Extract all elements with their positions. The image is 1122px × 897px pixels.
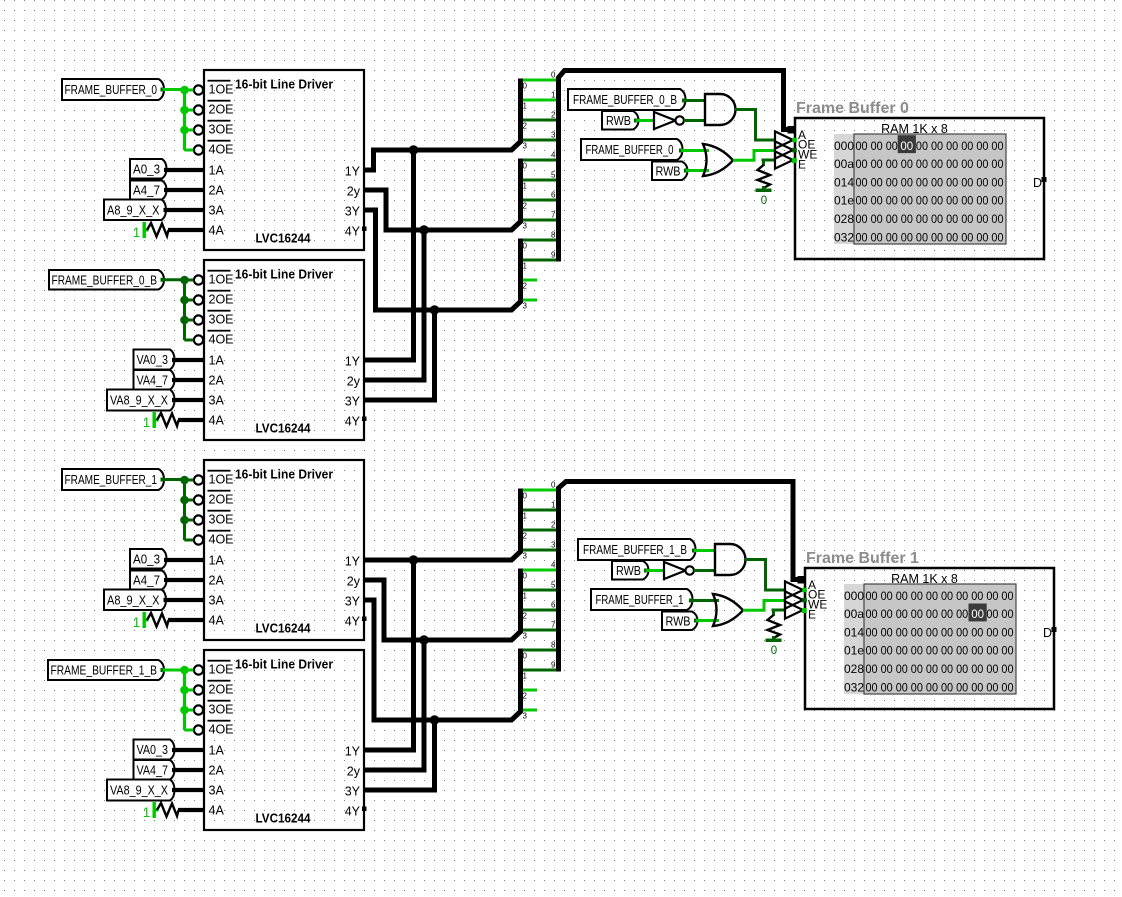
RAM RAM2 data cells xyxy=(864,584,1016,694)
svg-text:2: 2 xyxy=(523,692,528,701)
pin 1Y of U3 xyxy=(345,554,361,568)
svg-text:0: 0 xyxy=(523,652,528,661)
RAM RAM1 selected cell highlight xyxy=(898,135,916,153)
pin 2A of U4 xyxy=(209,764,225,778)
wire RWB to OR U10 input 2 xyxy=(694,619,719,623)
bus B2 tap label 0 xyxy=(551,481,556,490)
svg-text:2y: 2y xyxy=(347,374,361,388)
svg-text:1: 1 xyxy=(133,615,141,630)
splitter S3 bit label 2 xyxy=(523,282,528,291)
bus wire VA8_9_X_X to pin 3A xyxy=(172,788,204,792)
svg-text:00 00 00 00 00 00 00 00 00 00: 00 00 00 00 00 00 00 00 00 00 xyxy=(866,682,1014,694)
splitter S6 bit 0 wire to bus xyxy=(523,649,557,652)
svg-text:16-bit Line Driver: 16-bit Line Driver xyxy=(235,267,333,282)
net label FRAME_BUFFER_0 xyxy=(62,79,164,100)
splitter S2 bit label 1 xyxy=(523,182,528,191)
pin 2y of U4 xyxy=(347,764,361,778)
RAM RAM2 OE pin dot xyxy=(802,588,807,593)
svg-text:0: 0 xyxy=(551,71,556,80)
splitter S5 bit 0 wire to bus xyxy=(523,569,557,572)
wire trunk branch to 1OE xyxy=(185,279,194,282)
wire inverter U6 out to AND U5 input 2 xyxy=(684,119,705,122)
svg-text:16-bit Line Driver: 16-bit Line Driver xyxy=(235,657,333,672)
svg-text:3Y: 3Y xyxy=(345,594,361,608)
svg-text:1: 1 xyxy=(551,91,556,100)
splitter S6 bit 3 stub (unconnected) xyxy=(523,709,537,712)
ground symbol 0 for R5 xyxy=(756,189,772,208)
splitter S3 bit 0 wire to bus xyxy=(523,239,557,242)
pin 4OE of U1 (active-low bubble) xyxy=(194,140,234,157)
svg-text:FRAME_BUFFER_0_B: FRAME_BUFFER_0_B xyxy=(573,93,677,107)
splitter S4 bit label 2 xyxy=(523,532,528,541)
svg-text:1Y: 1Y xyxy=(345,164,361,178)
RAM RAM2 E pin dot xyxy=(802,608,807,613)
svg-text:00 00 00 00 00 00 00 00 00 00: 00 00 00 00 00 00 00 00 00 00 xyxy=(866,646,1014,658)
svg-text:5: 5 xyxy=(551,171,556,180)
svg-text:014: 014 xyxy=(834,175,854,189)
junction on OE trunk at 1OE xyxy=(180,666,189,675)
pin 1A of U1 xyxy=(209,164,225,178)
svg-text:000: 000 xyxy=(844,589,864,603)
pin 2A of U3 xyxy=(209,574,225,588)
junction node on 1Y bus xyxy=(409,145,419,155)
svg-text:2y: 2y xyxy=(347,184,361,198)
pin 3A of U1 xyxy=(209,204,225,218)
svg-text:0: 0 xyxy=(761,195,767,207)
svg-text:1A: 1A xyxy=(209,354,225,368)
wire trunk branch to 1OE xyxy=(185,89,194,92)
splitter S1 bit 0 wire to bus xyxy=(523,79,557,82)
RAM RAM1 WE pin dot xyxy=(792,148,797,153)
junction on OE trunk at 3OE xyxy=(180,516,189,525)
bus wire A8_9_X_X to pin 3A xyxy=(164,208,205,212)
junction node on lower 2y bus xyxy=(419,635,429,645)
svg-text:RWB: RWB xyxy=(606,114,631,128)
pin stub 4Y of U3 xyxy=(362,617,367,622)
splitter S1 bit label 1 xyxy=(523,102,528,111)
wire OE trunk vertical xyxy=(183,90,186,150)
bus wire VA8_9_X_X to pin 3A xyxy=(172,398,204,402)
RAM RAM1 E pin dot xyxy=(792,158,797,163)
svg-text:2y: 2y xyxy=(347,574,361,588)
svg-text:0: 0 xyxy=(523,242,528,251)
bus wire A8_9_X_X to pin 3A xyxy=(164,598,205,602)
bus wire U3 2y to splitter S5 xyxy=(364,569,521,641)
svg-text:2: 2 xyxy=(523,202,528,211)
splitter S5 bit 3 wire to bus xyxy=(523,629,557,632)
svg-text:01e: 01e xyxy=(844,644,864,658)
svg-text:01e: 01e xyxy=(834,194,854,208)
inverter U6 xyxy=(654,112,684,129)
wire trunk branch to 3OE xyxy=(185,709,194,712)
splitter S4 bit 1 wire to bus xyxy=(523,509,557,512)
inverter U9 xyxy=(664,562,694,579)
splitter S4 bit label 0 xyxy=(523,492,528,501)
svg-text:D: D xyxy=(1033,176,1042,190)
svg-text:3: 3 xyxy=(523,712,528,721)
svg-text:2A: 2A xyxy=(209,764,225,778)
net label FRAME_BUFFER_0_B xyxy=(568,89,686,110)
svg-text:2A: 2A xyxy=(209,184,225,198)
svg-text:Frame Buffer 0: Frame Buffer 0 xyxy=(796,100,909,117)
bus B1 tap label 5 xyxy=(551,171,556,180)
svg-text:3Y: 3Y xyxy=(345,394,361,408)
junction on OE trunk at 1OE xyxy=(180,476,189,485)
svg-text:00 00 00 00 00 00 00 00 00 00: 00 00 00 00 00 00 00 00 00 00 xyxy=(866,627,1014,639)
pin 2y of U3 xyxy=(347,574,361,588)
bus wire U1 1Y to splitter S1 xyxy=(364,79,521,171)
wire FRAME_BUFFER_1 to OR U10 input 1 xyxy=(689,599,719,603)
bus wire U1 2y to splitter S2 xyxy=(364,159,521,231)
net label VA0_3 xyxy=(134,740,175,760)
svg-text:FRAME_BUFFER_1_B: FRAME_BUFFER_1_B xyxy=(51,664,158,678)
resistor R3 pull-up to 1 at 4A xyxy=(133,612,204,630)
svg-text:00 00 00 00 00 00 00 00 00 00: 00 00 00 00 00 00 00 00 00 00 xyxy=(856,232,1004,244)
splitter S5 bit label 1 xyxy=(523,592,528,601)
wire inverter U9 out to AND U8 input 2 xyxy=(694,569,715,572)
RAM RAM2 pin E buffer triangle xyxy=(785,601,816,621)
svg-text:00a: 00a xyxy=(844,607,864,621)
svg-text:00 00 00 00 00 00 00 00 00 00: 00 00 00 00 00 00 00 00 00 00 xyxy=(866,591,1014,603)
splitter S6 bit label 3 xyxy=(523,712,528,721)
bus wire A0_3 to pin 1A xyxy=(164,168,204,172)
pin 3OE of U3 (active-low bubble) xyxy=(194,510,234,527)
svg-text:2: 2 xyxy=(523,282,528,291)
wire OR U10 out to RAM WE xyxy=(743,601,785,611)
net label A0_3 xyxy=(130,549,167,569)
line driver U2 16-bit Line Driver LVC16244 xyxy=(204,260,364,440)
splitter S2 bit label 2 xyxy=(523,202,528,211)
svg-text:00: 00 xyxy=(900,141,913,153)
pin 3Y of U2 xyxy=(345,394,361,408)
svg-text:1: 1 xyxy=(523,672,528,681)
svg-text:A0_3: A0_3 xyxy=(133,552,160,566)
bus wire U3 1Y to splitter S4 xyxy=(364,489,521,561)
pin 1OE of U2 (active-low bubble) xyxy=(194,270,234,287)
svg-text:1: 1 xyxy=(523,102,528,111)
svg-text:1: 1 xyxy=(143,415,151,430)
svg-text:4A: 4A xyxy=(209,804,225,818)
svg-text:4A: 4A xyxy=(209,614,225,628)
wire RWB to inverter U6 xyxy=(634,119,654,123)
svg-text:0: 0 xyxy=(523,492,528,501)
svg-text:1: 1 xyxy=(523,512,528,521)
svg-text:VA4_7: VA4_7 xyxy=(137,373,169,387)
net label VA4_7 xyxy=(134,760,175,780)
splitter S1 bit label 2 xyxy=(523,122,528,131)
svg-text:4OE: 4OE xyxy=(209,143,234,157)
splitter S1 bit label 3 xyxy=(523,142,528,151)
resistor R6 pull-down to 0 at RAM E pin xyxy=(768,610,786,640)
junction on OE trunk at 2OE xyxy=(180,296,189,305)
bus wire VA0_3 to pin 1A xyxy=(172,358,204,362)
svg-text:4A: 4A xyxy=(209,414,225,428)
junction on OE trunk at 1OE xyxy=(180,86,189,95)
pin 4A of U2 xyxy=(209,414,225,428)
splitter S3 bit 3 stub (unconnected) xyxy=(523,299,537,302)
junction node on 2y bus xyxy=(419,225,429,235)
splitter S3 bit label 0 xyxy=(523,242,528,251)
junction on OE trunk at 2OE xyxy=(180,686,189,695)
junction on OE trunk at 1OE xyxy=(180,276,189,285)
svg-text:2: 2 xyxy=(551,521,556,530)
wire FRAME_BUFFER_1 to OE trunk xyxy=(161,478,185,482)
svg-text:032: 032 xyxy=(834,230,854,244)
wire trunk branch to 2OE xyxy=(185,109,194,112)
svg-text:2: 2 xyxy=(523,532,528,541)
wire trunk branch to 1OE xyxy=(185,479,194,482)
svg-text:1A: 1A xyxy=(209,554,225,568)
wire FRAME_BUFFER_0_B to OE trunk xyxy=(161,278,185,282)
svg-text:3: 3 xyxy=(523,552,528,561)
splitter S6 bit label 0 xyxy=(523,652,528,661)
wire FRAME_BUFFER_0 to OR U7 input 1 xyxy=(679,149,709,153)
svg-text:D: D xyxy=(1043,626,1052,640)
svg-text:3: 3 xyxy=(523,222,528,231)
splitter S2 bit 0 wire to bus xyxy=(523,159,557,162)
svg-text:7: 7 xyxy=(551,621,556,630)
svg-text:6: 6 xyxy=(551,191,556,200)
wire trunk branch to 4OE xyxy=(185,339,194,342)
svg-text:16-bit Line Driver: 16-bit Line Driver xyxy=(235,467,333,482)
net label A8_9_X_X xyxy=(104,590,166,611)
svg-text:3: 3 xyxy=(523,632,528,641)
svg-text:1: 1 xyxy=(551,501,556,510)
wire OR U7 out to RAM WE xyxy=(733,151,775,161)
pin 3A of U3 xyxy=(209,594,225,608)
svg-text:2A: 2A xyxy=(209,374,225,388)
splitter S6 bit label 2 xyxy=(523,692,528,701)
splitter S1 bit 1 wire to bus xyxy=(523,99,557,102)
svg-text:1OE: 1OE xyxy=(209,473,234,487)
pin 1A of U4 xyxy=(209,744,225,758)
svg-text:1: 1 xyxy=(523,592,528,601)
splitter S1 bit 2 wire to bus xyxy=(523,119,557,122)
svg-text:2OE: 2OE xyxy=(209,293,234,307)
svg-text:4A: 4A xyxy=(209,224,225,238)
address bus B1 vertical xyxy=(559,71,790,262)
net label RWB xyxy=(652,162,688,181)
gray title text Frame Buffer 1 xyxy=(806,550,919,567)
svg-text:2A: 2A xyxy=(209,574,225,588)
net label VA4_7 xyxy=(134,370,175,390)
wire trunk branch to 2OE xyxy=(185,299,194,302)
splitter S3 bit 1 wire to bus xyxy=(523,259,557,262)
RAM RAM1 OE pin dot xyxy=(792,138,797,143)
pin 1OE of U3 (active-low bubble) xyxy=(194,470,234,487)
bus B2 tap label 4 xyxy=(551,561,556,570)
bus B2 tap label 2 xyxy=(551,521,556,530)
svg-text:2OE: 2OE xyxy=(209,493,234,507)
svg-text:2y: 2y xyxy=(347,764,361,778)
svg-text:1: 1 xyxy=(133,225,141,240)
wire trunk branch to 3OE xyxy=(185,319,194,322)
net label RWB xyxy=(662,612,698,631)
wire OE trunk vertical xyxy=(183,280,186,340)
pin 1OE of U1 (active-low bubble) xyxy=(194,80,234,97)
RAM RAM2 pin D xyxy=(1043,626,1057,640)
splitter S5 bit label 3 xyxy=(523,632,528,641)
svg-text:4OE: 4OE xyxy=(209,533,234,547)
net label A0_3 xyxy=(130,159,167,179)
wire trunk branch to 3OE xyxy=(185,129,194,132)
net label FRAME_BUFFER_0 xyxy=(581,139,683,160)
svg-text:VA4_7: VA4_7 xyxy=(137,763,169,777)
bus wire U1 3Y to splitter S3 xyxy=(364,210,521,310)
wire trunk branch to 3OE xyxy=(185,519,194,522)
wire RWB to inverter U9 xyxy=(644,569,664,573)
wire trunk branch to 2OE xyxy=(185,689,194,692)
resistor R2 pull-up to 1 at 4A xyxy=(143,412,204,430)
bus B1 tap label 2 xyxy=(551,111,556,120)
pin 2OE of U3 (active-low bubble) xyxy=(194,490,234,507)
bus wire junction down to U2 3Y xyxy=(364,310,435,400)
svg-text:000: 000 xyxy=(834,139,854,153)
svg-text:4Y: 4Y xyxy=(345,804,361,818)
bus wire A4_7 to pin 2A xyxy=(164,188,204,192)
splitter S5 bit label 0 xyxy=(523,572,528,581)
RAM RAM1 address column xyxy=(834,134,854,244)
svg-text:00 00 00 00 00 00 00 00 00 00: 00 00 00 00 00 00 00 00 00 00 xyxy=(856,196,1004,208)
svg-text:LVC16244: LVC16244 xyxy=(256,421,312,436)
RAM RAM2 selected cell highlight xyxy=(969,604,987,622)
net label RWB xyxy=(602,111,639,130)
splitter S6 bit label 1 xyxy=(523,672,528,681)
svg-text:00 00 00 00 00 00 00 00 00 00: 00 00 00 00 00 00 00 00 00 00 xyxy=(866,609,1014,621)
svg-text:3A: 3A xyxy=(209,784,225,798)
splitter S4 bit label 1 xyxy=(523,512,528,521)
AND gate U5 xyxy=(705,94,735,125)
resistor R1 pull-up to 1 at 4A xyxy=(133,222,204,240)
pin 4Y of U3 xyxy=(345,614,361,628)
svg-text:VA0_3: VA0_3 xyxy=(137,353,169,367)
pin stub 4Y of U2 xyxy=(362,417,367,422)
bus B2 tap label 8 xyxy=(551,641,556,650)
wire AND U8 out to RAM OE xyxy=(745,560,785,591)
line driver U1 16-bit Line Driver LVC16244 xyxy=(204,70,364,250)
svg-text:00 00 00 00 00 00 00 00 00 00: 00 00 00 00 00 00 00 00 00 00 xyxy=(856,141,1004,153)
RAM RAM2 address column xyxy=(844,584,864,694)
wire FRAME_BUFFER_1_B to AND U8 input 1 xyxy=(692,549,715,553)
svg-text:9: 9 xyxy=(551,251,556,260)
bus wire A4_7 to pin 2A xyxy=(164,578,204,582)
net label A8_9_X_X xyxy=(104,200,166,221)
svg-text:1OE: 1OE xyxy=(209,663,234,677)
pin 4OE of U2 (active-low bubble) xyxy=(194,330,234,347)
wire RWB to OR U7 input 2 xyxy=(684,169,709,173)
splitter S2 bit label 3 xyxy=(523,222,528,231)
svg-text:1Y: 1Y xyxy=(345,744,361,758)
svg-text:FRAME_BUFFER_0: FRAME_BUFFER_0 xyxy=(65,83,158,97)
pin 1Y of U4 xyxy=(345,744,361,758)
svg-text:00 00 00 00 00 00 00 00 00 00: 00 00 00 00 00 00 00 00 00 00 xyxy=(856,177,1004,189)
svg-text:1Y: 1Y xyxy=(345,354,361,368)
pin 2y of U2 xyxy=(347,374,361,388)
wire OE trunk vertical xyxy=(183,480,186,540)
bus B2 tap label 9 xyxy=(551,661,556,670)
pin 3OE of U4 (active-low bubble) xyxy=(194,700,234,717)
wire AND U5 out to RAM OE xyxy=(735,110,775,141)
net label VA0_3 xyxy=(134,350,175,370)
splitter S3 bit label 3 xyxy=(523,302,528,311)
svg-text:4: 4 xyxy=(551,561,556,570)
pin 1Y of U1 xyxy=(345,164,361,178)
AND gate U8 xyxy=(715,544,745,575)
svg-text:3: 3 xyxy=(523,142,528,151)
splitter S6 bit 1 wire to bus xyxy=(523,669,557,672)
pin 4OE of U3 (active-low bubble) xyxy=(194,530,234,547)
svg-text:A8_9_X_X: A8_9_X_X xyxy=(107,593,160,607)
bus B1 tap label 6 xyxy=(551,191,556,200)
bus B2 tap label 5 xyxy=(551,581,556,590)
pin 2OE of U2 (active-low bubble) xyxy=(194,290,234,307)
RAM RAM1 pin E buffer triangle xyxy=(775,151,806,171)
svg-text:2: 2 xyxy=(523,122,528,131)
net label FRAME_BUFFER_1_B xyxy=(48,660,164,680)
svg-text:LVC16244: LVC16244 xyxy=(256,231,312,246)
RAM RAM1 pin WE buffer triangle xyxy=(775,141,817,161)
splitter S5 bit 2 wire to bus xyxy=(523,609,557,612)
svg-text:0: 0 xyxy=(551,481,556,490)
splitter S6 bit 2 stub (unconnected) xyxy=(523,689,537,692)
pin 3OE of U1 (active-low bubble) xyxy=(194,120,234,137)
svg-text:0: 0 xyxy=(523,162,528,171)
svg-text:FRAME_BUFFER_1: FRAME_BUFFER_1 xyxy=(596,593,684,607)
svg-text:00a: 00a xyxy=(834,157,854,171)
svg-text:014: 014 xyxy=(844,625,864,639)
svg-text:3Y: 3Y xyxy=(345,204,361,218)
wire trunk branch to 4OE xyxy=(185,539,194,542)
bus B2 tap label 1 xyxy=(551,501,556,510)
svg-text:00 00 00 00 00 00 00 00 00 00: 00 00 00 00 00 00 00 00 00 00 xyxy=(866,664,1014,676)
svg-text:A0_3: A0_3 xyxy=(133,162,160,176)
svg-text:0: 0 xyxy=(523,572,528,581)
ground symbol 0 for R6 xyxy=(766,639,782,658)
svg-text:4: 4 xyxy=(551,151,556,160)
junction on OE trunk at 3OE xyxy=(180,126,189,135)
splitter S5 bit 1 wire to bus xyxy=(523,589,557,592)
junction on OE trunk at 3OE xyxy=(180,316,189,325)
address bus B2 vertical xyxy=(559,482,800,672)
resistor R5 pull-down to 0 at RAM E pin xyxy=(758,160,776,190)
splitter S2 bit 3 wire to bus xyxy=(523,219,557,222)
svg-text:VA8_9_X_X: VA8_9_X_X xyxy=(110,394,169,408)
pin 2OE of U1 (active-low bubble) xyxy=(194,100,234,117)
bus wire A0_3 to pin 1A xyxy=(164,558,204,562)
svg-text:6: 6 xyxy=(551,601,556,610)
bus wire junction down to U4 1Y xyxy=(364,560,414,750)
svg-text:FRAME_BUFFER_0_B: FRAME_BUFFER_0_B xyxy=(52,273,158,287)
splitter S2 bit label 0 xyxy=(523,162,528,171)
RAM RAM1 pin A xyxy=(788,126,807,142)
svg-text:1Y: 1Y xyxy=(345,554,361,568)
junction on OE trunk at 2OE xyxy=(180,106,189,115)
net label A4_7 xyxy=(130,181,167,200)
svg-text:00 00 00 00 00 00 00 00 00 00: 00 00 00 00 00 00 00 00 00 00 xyxy=(856,159,1004,171)
RAM RAM2 pin WE buffer triangle xyxy=(785,591,827,611)
svg-text:A4_7: A4_7 xyxy=(133,574,160,588)
bus wire junction down to U4 3Y xyxy=(364,720,435,790)
svg-text:VA0_3: VA0_3 xyxy=(137,743,169,757)
OR gate U7 xyxy=(703,144,733,176)
RAM RAM1 pin D xyxy=(1033,176,1047,190)
svg-text:0: 0 xyxy=(523,82,528,91)
svg-text:1: 1 xyxy=(143,805,151,820)
svg-text:3OE: 3OE xyxy=(209,313,234,327)
svg-text:RWB: RWB xyxy=(656,165,681,179)
RAM RAM1 pin OE buffer triangle xyxy=(775,131,815,151)
pin 3Y of U4 xyxy=(345,784,361,798)
